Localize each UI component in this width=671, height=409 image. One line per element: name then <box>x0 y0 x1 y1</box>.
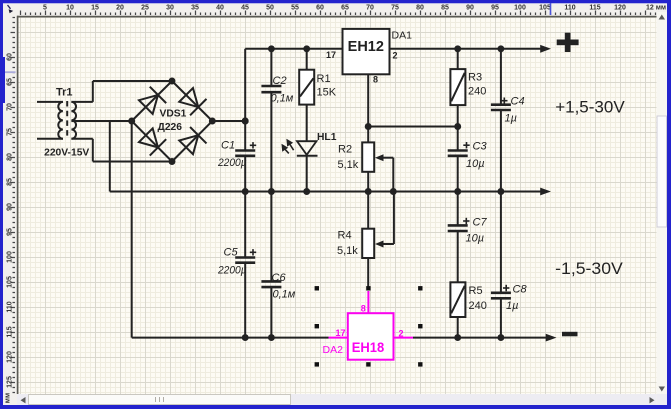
svg-text:R3: R3 <box>468 71 482 83</box>
wire secondary top to bridge top <box>71 101 92 103</box>
wire secondary bottom to bridge bottom <box>71 138 92 140</box>
top rail right segment <box>390 48 541 50</box>
svg-text:115: 115 <box>6 326 13 337</box>
resistor R2 5,1k (trimmer) <box>362 142 374 171</box>
svg-text:C4: C4 <box>511 96 525 108</box>
capacitor C4 1µ <box>500 49 502 105</box>
svg-text:8: 8 <box>373 74 378 84</box>
svg-text:70: 70 <box>366 5 374 12</box>
wire C1 column and top-rail riser <box>244 49 246 151</box>
bridge rectifier VDS1 Д226 <box>128 78 216 165</box>
transformer Tr1 <box>37 101 76 140</box>
selection handles <box>315 286 319 290</box>
svg-text:120: 120 <box>614 5 626 12</box>
wire junction to R3 bottom <box>368 126 458 128</box>
resistor R1 15K <box>299 70 314 105</box>
svg-text:C3: C3 <box>473 141 488 153</box>
svg-text:55: 55 <box>291 5 299 12</box>
svg-text:110: 110 <box>564 5 575 12</box>
svg-text:VDS1: VDS1 <box>160 109 187 120</box>
svg-text:35: 35 <box>191 5 199 12</box>
svg-text:115: 115 <box>589 5 600 12</box>
capacitor C7 10µ <box>457 192 459 226</box>
svg-text:R5: R5 <box>469 285 483 297</box>
svg-text:90: 90 <box>466 5 474 12</box>
capacitor C3 10µ <box>457 127 459 151</box>
top rail left segment <box>245 48 342 50</box>
svg-text:70: 70 <box>6 103 13 111</box>
capacitor C8 1µ <box>500 192 502 293</box>
svg-text:C2: C2 <box>273 75 287 87</box>
resistor R5 240 <box>450 282 465 317</box>
svg-text:15: 15 <box>91 5 99 12</box>
svg-text:100: 100 <box>514 5 526 12</box>
svg-text:125: 125 <box>6 376 13 388</box>
svg-text:DA2: DA2 <box>323 344 344 356</box>
svg-text:C1: C1 <box>221 140 235 152</box>
wire secondary center tap <box>71 120 131 122</box>
op-amp U1 / regulator EH12 DA1 <box>343 29 390 74</box>
svg-text:110: 110 <box>6 301 13 312</box>
svg-text:65: 65 <box>341 5 349 12</box>
top rail arrow <box>540 45 551 53</box>
svg-text:10µ: 10µ <box>466 158 485 170</box>
svg-text:240: 240 <box>469 300 487 312</box>
svg-text:2: 2 <box>393 50 398 60</box>
svg-text:17: 17 <box>326 50 336 60</box>
resistor R4 5,1k (trimmer) <box>367 192 369 229</box>
svg-text:17: 17 <box>335 328 345 338</box>
svg-text:75: 75 <box>6 128 13 136</box>
LED HL1 <box>297 141 317 155</box>
svg-text:-1,5-30V: -1,5-30V <box>555 259 623 278</box>
svg-text:Tr1: Tr1 <box>56 87 73 99</box>
svg-text:2200µ: 2200µ <box>217 157 247 169</box>
svg-text:20: 20 <box>116 5 124 12</box>
output plus symbol <box>557 40 579 46</box>
left ruler cursor marker <box>3 71 16 73</box>
wire EH12 pin8 down <box>367 74 369 142</box>
top ruler cursor marker <box>550 3 552 15</box>
top ruler ticks <box>21 11 656 16</box>
svg-text:80: 80 <box>416 5 424 12</box>
svg-text:15K: 15K <box>317 87 337 99</box>
svg-text:мм: мм <box>5 393 12 403</box>
svg-text:R2: R2 <box>338 144 352 156</box>
svg-text:C6: C6 <box>272 272 287 284</box>
svg-text:75: 75 <box>391 5 399 12</box>
junction dots bottom rail <box>242 334 249 341</box>
wire bottom rail left <box>132 337 329 339</box>
svg-text:120: 120 <box>6 351 13 363</box>
bottom rail arrow <box>546 334 557 342</box>
svg-text:90: 90 <box>6 203 13 211</box>
svg-text:220V-15V: 220V-15V <box>44 148 89 159</box>
junction dots top rail <box>268 45 275 52</box>
svg-text:12 мм: 12 мм <box>646 5 666 12</box>
svg-text:0,1м: 0,1м <box>271 93 294 105</box>
horizontal scrollbar <box>17 394 656 405</box>
svg-text:5,1k: 5,1k <box>337 245 358 257</box>
svg-text:R4: R4 <box>338 230 352 242</box>
wire center tap down to mid rail <box>109 121 111 192</box>
svg-text:100: 100 <box>6 251 13 263</box>
svg-text:95: 95 <box>491 5 499 12</box>
wire C2/C6 column <box>270 49 272 86</box>
left border view-range band <box>3 57 5 103</box>
mid rail <box>110 191 541 193</box>
svg-text:EH18: EH18 <box>352 339 385 355</box>
regulator EH18 DA2 (selected, magenta) <box>329 291 414 360</box>
svg-text:1µ: 1µ <box>506 300 518 312</box>
capacitor C5 2200µ <box>235 256 255 259</box>
svg-text:105: 105 <box>6 276 13 288</box>
svg-text:25: 25 <box>141 5 149 12</box>
left ruler numbers <box>5 53 14 403</box>
svg-text:Д226: Д226 <box>158 122 183 133</box>
svg-text:85: 85 <box>441 5 449 12</box>
wire bridge left node down <box>131 121 133 338</box>
top ruler numbers <box>43 5 626 12</box>
svg-text:R1: R1 <box>317 73 331 85</box>
left ruler ticks <box>11 18 16 393</box>
svg-text:C5: C5 <box>224 247 239 259</box>
capacitor C2 0,1м <box>261 85 281 88</box>
svg-text:8: 8 <box>361 303 366 313</box>
svg-text:2200µ: 2200µ <box>217 264 247 276</box>
svg-text:C7: C7 <box>473 216 488 228</box>
svg-text:HL1: HL1 <box>317 132 337 143</box>
svg-text:10: 10 <box>66 5 74 12</box>
svg-text:95: 95 <box>6 228 13 236</box>
svg-text:DA1: DA1 <box>392 30 413 42</box>
top border bevel <box>3 3 667 5</box>
svg-text:65: 65 <box>6 78 13 86</box>
svg-text:5,1k: 5,1k <box>338 159 359 171</box>
svg-text:5: 5 <box>43 5 47 12</box>
vertical scrollbar <box>657 12 668 394</box>
svg-text:240: 240 <box>468 86 486 98</box>
capacitor C6 0,1м <box>261 280 281 283</box>
svg-text:2: 2 <box>399 328 404 338</box>
svg-text:30: 30 <box>166 5 174 12</box>
capacitor C1 2200µ <box>235 149 255 152</box>
svg-text:EH12: EH12 <box>348 39 384 55</box>
svg-text:40: 40 <box>216 5 224 12</box>
junction dots mid rail <box>242 188 249 195</box>
corner cursor icon <box>8 5 14 13</box>
svg-text:C8: C8 <box>513 284 528 296</box>
svg-text:50: 50 <box>266 5 274 12</box>
svg-text:0,1м: 0,1м <box>273 289 296 301</box>
svg-text:105: 105 <box>539 5 551 12</box>
mid rail arrow <box>540 188 551 196</box>
svg-text:85: 85 <box>6 178 13 186</box>
resistor R3 240 <box>457 49 459 69</box>
svg-text:80: 80 <box>6 153 13 161</box>
svg-text:60: 60 <box>316 5 324 12</box>
svg-text:1µ: 1µ <box>505 113 517 125</box>
svg-text:10µ: 10µ <box>466 233 485 245</box>
bottom rail right segment <box>413 337 547 339</box>
svg-text:45: 45 <box>241 5 249 12</box>
output minus symbol <box>562 332 578 337</box>
wire R1/HL1 column <box>306 49 308 70</box>
svg-text:+1,5-30V: +1,5-30V <box>555 97 625 116</box>
svg-text:60: 60 <box>6 53 13 61</box>
wire bridge right node to C1 column <box>212 120 245 122</box>
